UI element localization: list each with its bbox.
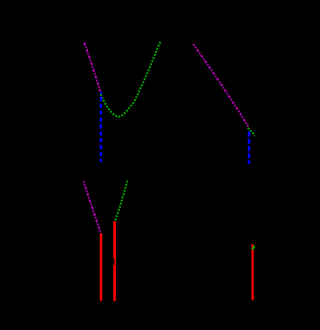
green stub above right red line	[252, 245, 256, 249]
green dotted stub at right edge	[248, 128, 257, 137]
green dotted line lower	[115, 181, 128, 223]
blue dashed vertical line left	[100, 92, 103, 162]
magenta dash-dot curve upper-right	[193, 44, 248, 126]
red vertical line 2	[113, 221, 116, 301]
green dotted adiabatic curve with minimum	[101, 41, 161, 117]
red vertical line 1	[100, 234, 102, 301]
red vertical line right	[251, 244, 253, 300]
dark notch on red line 2	[112, 259, 114, 265]
magenta dash-dot curve upper-left	[84, 43, 100, 92]
blue dashed vertical line right	[248, 131, 251, 164]
magenta dash-dot line lower-left	[83, 181, 101, 235]
